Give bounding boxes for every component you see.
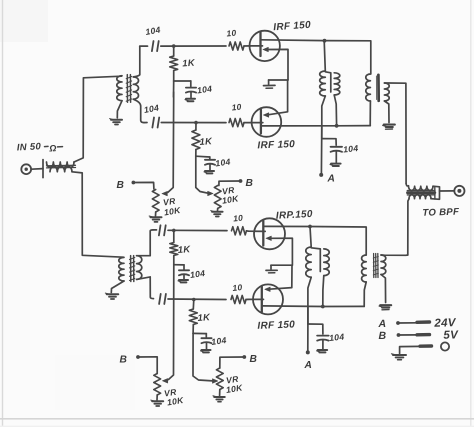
svg-text:B: B [246, 178, 254, 189]
svg-text:10: 10 [226, 28, 237, 39]
svg-text:10K: 10K [221, 193, 240, 206]
svg-text:IRP.150: IRP.150 [276, 209, 314, 222]
svg-text:TO BPF: TO BPF [422, 206, 460, 218]
svg-text:A: A [327, 173, 336, 184]
svg-text:24V: 24V [433, 317, 457, 330]
svg-text:104: 104 [329, 331, 345, 343]
svg-text:104: 104 [189, 268, 205, 280]
svg-text:A: A [378, 318, 387, 330]
svg-text:104: 104 [145, 24, 162, 36]
svg-text:A: A [304, 360, 313, 371]
svg-text:104: 104 [215, 156, 231, 168]
svg-text:10K: 10K [163, 205, 182, 218]
svg-text:104: 104 [343, 143, 359, 155]
svg-text:10: 10 [231, 102, 242, 113]
svg-text:1K: 1K [197, 311, 211, 323]
svg-text:10: 10 [233, 213, 244, 224]
svg-text:IRF 150: IRF 150 [257, 319, 295, 331]
svg-text:IRF 150: IRF 150 [257, 139, 295, 151]
svg-text:10K: 10K [166, 395, 185, 408]
svg-text:B: B [250, 354, 258, 365]
svg-text:IN 50: IN 50 [17, 141, 42, 153]
svg-text:1K: 1K [199, 135, 213, 147]
svg-text:IRF 150: IRF 150 [273, 20, 311, 34]
svg-text:1K: 1K [182, 57, 196, 69]
svg-text:10K: 10K [225, 382, 244, 395]
svg-text:1K: 1K [177, 243, 191, 255]
svg-text:10: 10 [232, 282, 243, 293]
svg-text:B: B [120, 354, 128, 365]
svg-text:Ω: Ω [48, 143, 57, 153]
svg-text:B: B [379, 330, 387, 342]
svg-text:104: 104 [211, 335, 227, 347]
svg-text:104: 104 [196, 83, 212, 95]
svg-text:B: B [117, 180, 125, 191]
svg-text:5V: 5V [443, 329, 459, 342]
svg-text:104: 104 [143, 102, 160, 114]
